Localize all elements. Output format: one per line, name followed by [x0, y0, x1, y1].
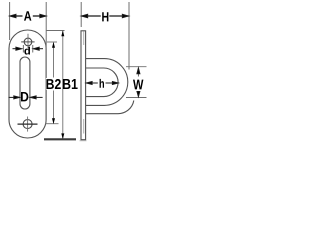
plate front view (oval pad) [9, 30, 46, 138]
eye outer contour [86, 59, 128, 106]
dimension B2 [46, 42, 59, 124]
slot D [20, 57, 30, 109]
dimension d [13, 45, 44, 53]
label D [21, 92, 28, 101]
dimension D [9, 96, 43, 99]
label B1 [64, 78, 79, 90]
baseline ground [44, 138, 76, 140]
shadow line under side plate [80, 140, 87, 142]
label W [132, 78, 144, 92]
top hole crosshair [21, 34, 34, 49]
label H [102, 12, 108, 21]
dimension B1 [47, 30, 65, 139]
top hole d [24, 38, 32, 46]
bottom hole crosshair [18, 117, 38, 132]
label B2 [46, 78, 61, 90]
eye lower weld curve [86, 101, 134, 114]
dimension h [86, 82, 118, 85]
label A [24, 11, 31, 20]
label d [24, 47, 30, 55]
dimension H [81, 2, 129, 70]
eye inner contour [86, 68, 118, 97]
label h [100, 79, 104, 88]
dimension A [10, 2, 47, 48]
plate side view [81, 31, 86, 140]
dimension W [126, 67, 147, 98]
plate side inner edge ticks [83, 31, 85, 133]
bottom hole [23, 120, 32, 129]
